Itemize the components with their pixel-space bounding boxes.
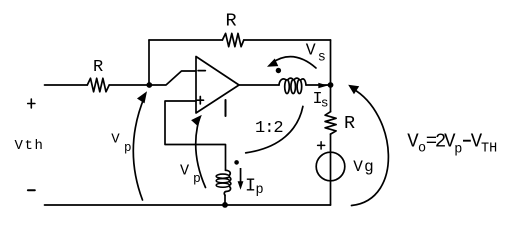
svg-text:Vth: Vth: [15, 138, 45, 154]
svg-text:V: V: [111, 132, 120, 148]
svg-text:p: p: [454, 142, 462, 157]
voltage source Vg circle: [316, 152, 345, 181]
svg-text:V: V: [180, 162, 190, 180]
svg-text:V: V: [306, 41, 316, 60]
resistor R2 top zigzag: [222, 33, 243, 46]
arrowhead Is: [318, 83, 328, 89]
wire resistor R3 to source Vg: [330, 134, 332, 152]
wire op-amp output to secondary winding: [239, 84, 279, 86]
svg-text:Vg: Vg: [353, 158, 375, 176]
node bottom rail junction dot: [222, 202, 228, 208]
transformer secondary winding loops: [285, 80, 290, 94]
op-amp plus sign: [197, 97, 203, 104]
resistor R1 left zigzag: [87, 78, 109, 92]
wire input left horizontal: [45, 84, 150, 86]
wire output node down to resistor R3: [330, 85, 332, 112]
svg-text:s: s: [318, 50, 326, 65]
svg-text:R: R: [226, 10, 237, 31]
op-amp U1 triangle: [196, 57, 239, 114]
arrowhead Vs: [265, 59, 278, 71]
arrowhead Ip with stem: [240, 168, 242, 182]
arrow arc Vp left: [133, 96, 145, 200]
svg-text:p: p: [256, 183, 264, 198]
svg-text:1:2: 1:2: [255, 119, 283, 138]
svg-text:R: R: [344, 113, 355, 134]
plus sign input port: [28, 99, 35, 108]
wire feedback right vertical down to output node: [330, 40, 332, 85]
wire noninverting input box: [165, 101, 226, 170]
transformer secondary winding arcs: [279, 78, 306, 85]
arrow arc Vo right: [352, 89, 389, 206]
node output junction dot: [328, 82, 334, 88]
node junction dot left: [146, 82, 152, 88]
arrowhead Vp middle: [191, 112, 205, 126]
wire through source Vg: [330, 152, 332, 181]
wire secondary to output node: [306, 84, 331, 86]
short vertical mark below op-amp: [225, 100, 227, 116]
transformer primary polarity dot: [234, 160, 239, 165]
resistor R3 right vertical zigzag: [325, 112, 336, 134]
plus sign source Vg: [318, 142, 325, 149]
wire source Vg to bottom rail: [330, 181, 332, 205]
svg-text:p: p: [124, 141, 132, 155]
transformer primary winding arcs: [224, 170, 231, 195]
arrow arc Vs: [272, 57, 317, 68]
wire feedback vertical left: [148, 40, 150, 85]
svg-text:I: I: [245, 175, 256, 196]
arrowhead Vo: [346, 81, 360, 94]
minus sign input port: [28, 189, 35, 191]
svg-text:R: R: [93, 58, 103, 77]
transformer coupling arc 1:2: [246, 106, 303, 152]
op-amp minus sign: [198, 70, 205, 72]
arrow arc Vp middle: [196, 120, 206, 188]
transformer secondary polarity dot: [276, 68, 281, 73]
svg-text:TH: TH: [481, 141, 497, 156]
arrowhead Vp left: [137, 89, 151, 104]
svg-text:p: p: [193, 171, 201, 186]
wire junction to inverting input: [149, 71, 196, 85]
transformer primary winding loops: [216, 174, 229, 178]
wire feedback top horizontal: [149, 39, 331, 41]
wire primary winding to bottom rail: [224, 195, 226, 205]
wire bottom rail: [45, 204, 331, 206]
svg-text:s: s: [321, 95, 329, 110]
